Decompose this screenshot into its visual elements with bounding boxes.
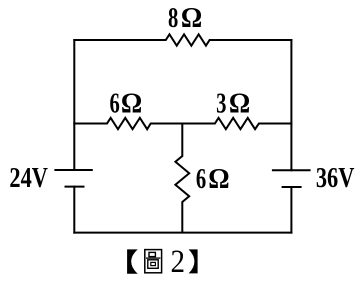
svg-text:36V: 36V: [316, 161, 355, 193]
svg-text:Ω: Ω: [208, 163, 229, 195]
svg-text:Ω: Ω: [229, 87, 250, 119]
svg-text:Ω: Ω: [121, 87, 142, 119]
svg-text:24V: 24V: [9, 161, 48, 193]
svg-text:Ω: Ω: [181, 2, 202, 34]
svg-text:2: 2: [171, 242, 186, 279]
svg-text:3: 3: [216, 88, 226, 119]
svg-text:6: 6: [196, 164, 206, 195]
svg-text:6: 6: [110, 88, 120, 119]
svg-text:8: 8: [168, 3, 178, 34]
